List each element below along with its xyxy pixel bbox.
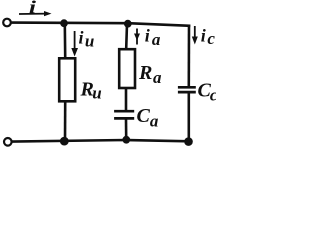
current arrow i_c (downward) xyxy=(192,26,198,45)
node (junction of R_u branch on top bus) xyxy=(60,19,68,27)
wire (bottom bus) xyxy=(13,140,189,142)
resistor R_a xyxy=(119,49,135,88)
terminal (bottom-left output) xyxy=(4,138,12,146)
current arrow i (top-left, pointing right) xyxy=(19,11,52,16)
current arrow i_a (downward) xyxy=(134,29,140,45)
wire (right side, down to capacitor C_c) xyxy=(188,26,191,86)
wire (junction 2 down to resistor R_a) xyxy=(125,24,128,49)
node (C_a branch at bottom bus) xyxy=(122,136,130,144)
node (C_c branch at bottom bus) xyxy=(184,137,193,146)
capacitor C_a xyxy=(114,111,134,118)
node (junction of R_a branch on top bus) xyxy=(124,20,132,28)
svg-text:iu: iu xyxy=(79,28,95,51)
capacitor C_c xyxy=(178,87,196,92)
terminal (top-left input) xyxy=(3,19,11,27)
wire (top bus from input terminal to right corner) xyxy=(12,23,189,26)
svg-text:ic: ic xyxy=(201,25,216,47)
current arrow i_u (downward) xyxy=(71,31,78,57)
node (R_u branch at bottom bus) xyxy=(60,137,69,146)
wire (C_a to bottom bus) xyxy=(125,120,128,140)
wire (R_a down to capacitor C_a) xyxy=(125,89,128,110)
wire (C_c to bottom bus) xyxy=(188,94,191,142)
svg-text:ia: ia xyxy=(145,25,161,49)
wire (R_u to bottom bus) xyxy=(64,103,67,141)
resistor R_u xyxy=(59,58,75,101)
svg-text:i: i xyxy=(29,0,37,17)
wire (junction 1 down to resistor R_u) xyxy=(64,23,67,57)
